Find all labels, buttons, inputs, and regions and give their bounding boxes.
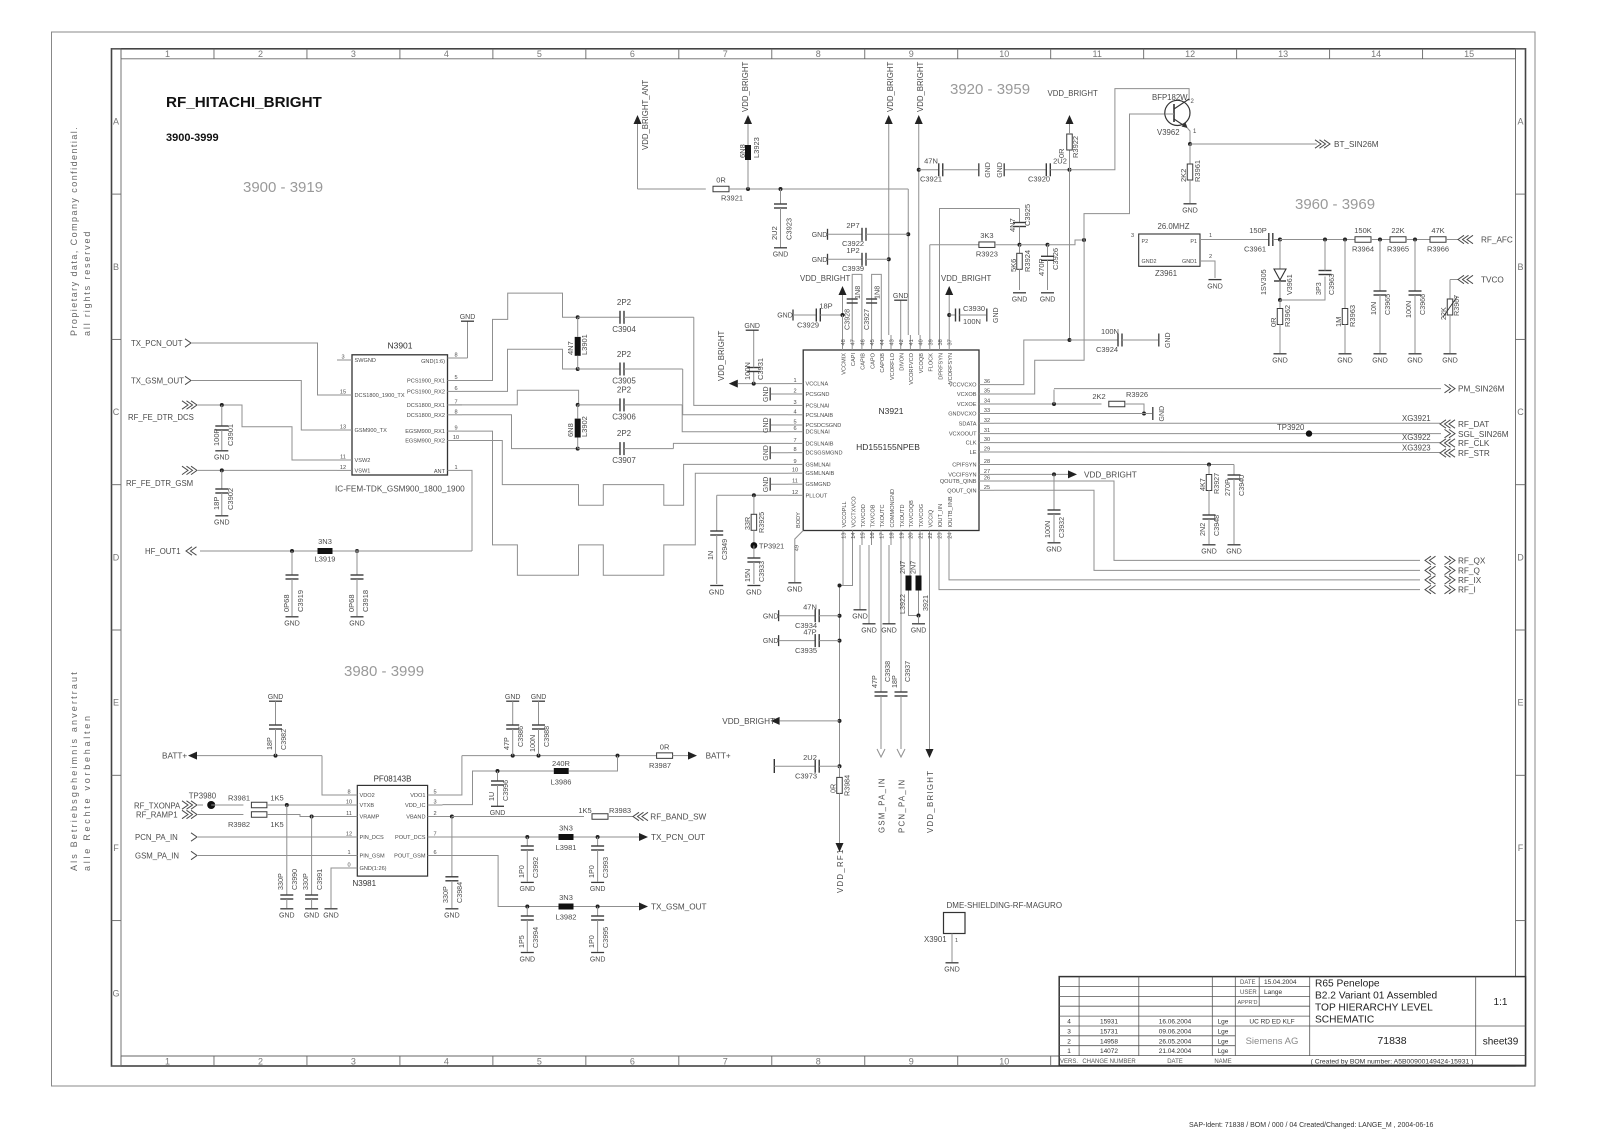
svg-text:GND: GND [323, 913, 339, 920]
svg-text:GND: GND [1372, 358, 1388, 365]
svg-text:45: 45 [870, 339, 876, 345]
svg-text:GND: GND [777, 313, 793, 320]
svg-text:CLK: CLK [966, 441, 977, 447]
svg-text:2: 2 [258, 1056, 263, 1066]
svg-text:15.04.2004: 15.04.2004 [1264, 979, 1297, 986]
svg-text:GND: GND [1272, 358, 1288, 365]
inductor L3982 3N3 [556, 893, 577, 922]
capacitor C3926 470P [1020, 243, 1061, 304]
wire pin28 CPIFSYN [994, 463, 1234, 467]
net TX_PCN_OUT out [639, 833, 705, 842]
svg-text:C3931: C3931 [756, 358, 765, 380]
svg-text:VDD_RF1: VDD_RF1 [836, 848, 845, 893]
svg-text:GND: GND [349, 621, 365, 628]
svg-text:VDO2: VDO2 [360, 793, 375, 799]
svg-text:1P0: 1P0 [587, 865, 596, 878]
svg-text:R3922: R3922 [1071, 136, 1080, 158]
svg-text:USER: USER [1240, 990, 1257, 996]
svg-text:C3904: C3904 [612, 325, 636, 334]
svg-text:150P: 150P [1249, 226, 1267, 235]
svg-text:Z3961: Z3961 [1155, 269, 1177, 278]
sheet title RF_HITACHI_BRIGHT [166, 94, 323, 111]
capacitor C3919 0P68 [282, 551, 305, 628]
svg-text:470P: 470P [1037, 258, 1046, 276]
svg-text:C3991: C3991 [315, 869, 324, 890]
svg-text:0R: 0R [1057, 148, 1066, 158]
resistor R3965 22K [1387, 226, 1430, 254]
svg-text:1P0: 1P0 [517, 865, 526, 878]
svg-text:15: 15 [861, 533, 867, 539]
net RF_STR [994, 444, 1490, 459]
svg-text:4: 4 [1067, 1019, 1071, 1026]
svg-text:sheet39: sheet39 [1483, 1037, 1519, 1048]
svg-text:VDD_BRIGHT_ANT: VDD_BRIGHT_ANT [641, 80, 650, 150]
capacitor C3907 2P2 [576, 429, 674, 465]
svg-text:GND: GND [997, 162, 1004, 178]
svg-text:C3986: C3986 [516, 726, 525, 747]
svg-text:3: 3 [1131, 233, 1134, 239]
capacitor C3949 1N [706, 495, 729, 596]
svg-text:RF_QX: RF_QX [1458, 556, 1486, 565]
resistor R3982 1K5 [228, 812, 342, 829]
capacitor C3961 150P [1244, 226, 1282, 254]
net RF_I [1425, 585, 1476, 594]
svg-text:C3905: C3905 [612, 377, 636, 386]
wire QOUT_QIN to RF_Q [994, 490, 1420, 570]
title block table [1059, 977, 1525, 1066]
svg-text:41: 41 [909, 339, 915, 345]
svg-text:DCSLNAIB: DCSLNAIB [806, 441, 834, 447]
svg-text:A: A [113, 116, 119, 126]
svg-text:3N3: 3N3 [559, 824, 573, 833]
svg-text:10: 10 [999, 49, 1009, 59]
svg-text:R3962: R3962 [1283, 305, 1292, 327]
svg-text:3N3: 3N3 [318, 537, 332, 546]
svg-text:47P: 47P [803, 628, 816, 637]
svg-text:PCSDCSGND: PCSDCSGND [806, 423, 842, 429]
svg-text:10: 10 [999, 1056, 1009, 1066]
svg-text:PIN_DCS: PIN_DCS [360, 835, 385, 841]
IC N3901 IC-FEM-TDK GSM front-end module [335, 341, 465, 494]
capacitor C3927 1N8 hairpin [862, 274, 882, 335]
svg-text:R3924: R3924 [1023, 250, 1032, 272]
svg-text:47N: 47N [803, 603, 817, 612]
svg-text:3921: 3921 [921, 595, 930, 611]
svg-text:C3930: C3930 [963, 304, 985, 313]
svg-text:0R: 0R [829, 784, 838, 793]
svg-text:1: 1 [955, 938, 958, 944]
svg-text:E: E [113, 698, 119, 708]
svg-text:47P: 47P [502, 737, 511, 750]
svg-text:GND: GND [214, 455, 230, 462]
svg-text:VCCIQ: VCCIQ [928, 509, 934, 527]
capacitor C3938 47P [870, 545, 892, 749]
svg-text:3: 3 [1067, 1028, 1071, 1035]
svg-text:GND: GND [268, 694, 284, 701]
notice alle Rechte vorbehalten [82, 713, 92, 871]
svg-text:47N: 47N [924, 157, 938, 166]
svg-text:GND: GND [520, 956, 536, 963]
svg-text:9: 9 [454, 426, 457, 432]
capacitor C3994 1P5 [517, 907, 540, 964]
svg-text:11: 11 [340, 455, 346, 461]
capacitor C3932 100N [1043, 474, 1066, 553]
svg-text:4K7: 4K7 [1198, 478, 1207, 491]
svg-text:PCN_PA_IN: PCN_PA_IN [135, 833, 178, 842]
wire pin35 VCXOB to crystal node [994, 240, 1084, 394]
svg-text:D: D [1517, 552, 1524, 562]
svg-text:C3920: C3920 [1028, 175, 1050, 184]
svg-text:RF_DAT: RF_DAT [1458, 420, 1489, 429]
capacitor C3988 100N [528, 694, 551, 756]
svg-text:DCS1800_RX2: DCS1800_RX2 [407, 413, 445, 419]
svg-text:DCSLNAI: DCSLNAI [806, 430, 831, 436]
svg-text:2K2: 2K2 [1092, 392, 1105, 401]
resistor R3981 1K5 [228, 794, 342, 808]
svg-text:VCXOE: VCXOE [957, 402, 977, 408]
svg-text:L3986: L3986 [551, 778, 572, 787]
svg-text:Propietary data, Company confi: Propietary data, Company confidential. [69, 126, 79, 336]
svg-text:RF_FE_DTR_DCS: RF_FE_DTR_DCS [128, 413, 194, 422]
net SGL_SIN26M with TP3920 [994, 423, 1509, 439]
svg-text:GND: GND [1201, 549, 1217, 556]
svg-text:TXVCOB: TXVCOB [870, 504, 876, 527]
svg-text:PCN_PA_IN: PCN_PA_IN [898, 779, 907, 833]
svg-text:C3927: C3927 [862, 309, 871, 330]
svg-text:30: 30 [984, 437, 990, 443]
svg-text:GND: GND [746, 589, 762, 596]
net 3K3 line pin39 [929, 245, 931, 335]
svg-text:GND: GND [812, 257, 828, 264]
svg-text:EGSM900_RX1: EGSM900_RX1 [405, 429, 445, 435]
svg-text:C3990: C3990 [290, 869, 299, 890]
svg-text:GND: GND [893, 293, 909, 300]
svg-text:F: F [113, 843, 119, 853]
inductor L3921 2N7 [909, 545, 931, 618]
svg-text:GND: GND [812, 232, 828, 239]
net RF_DAT [994, 414, 1489, 429]
svg-text:C3918: C3918 [361, 590, 370, 612]
capacitor C3937 18P [890, 545, 912, 749]
svg-text:2: 2 [258, 49, 263, 59]
svg-text:6: 6 [793, 426, 796, 432]
svg-text:C3925: C3925 [1023, 204, 1032, 226]
svg-text:C3961: C3961 [1244, 245, 1266, 254]
svg-text:100N: 100N [1404, 301, 1413, 318]
svg-text:R3965: R3965 [1387, 245, 1409, 254]
capacitor C3905 2P2 [576, 350, 683, 386]
svg-text:1K5: 1K5 [578, 806, 591, 815]
svg-text:1: 1 [347, 850, 350, 856]
svg-text:CAPIB: CAPIB [861, 353, 867, 370]
svg-text:12: 12 [340, 465, 346, 471]
capacitor C3940 270P [1223, 465, 1246, 556]
svg-text:VDD_BRIGHT: VDD_BRIGHT [886, 62, 895, 112]
wire crystal GND1 to ground [1200, 261, 1223, 290]
svg-text:8: 8 [454, 409, 457, 415]
svg-text:CAPOB: CAPOB [880, 353, 886, 373]
svg-text:GND: GND [1226, 549, 1242, 556]
svg-text:24: 24 [948, 533, 954, 539]
svg-text:RF_Q: RF_Q [1458, 566, 1480, 575]
svg-text:SDATA: SDATA [959, 421, 977, 427]
svg-text:DME-SHIELDING-RF-MAGURO: DME-SHIELDING-RF-MAGURO [947, 901, 1063, 910]
svg-text:XG3922: XG3922 [1402, 433, 1431, 442]
svg-text:DATE: DATE [1240, 980, 1256, 986]
svg-text:GND: GND [763, 445, 770, 461]
svg-text:VDD_BRIGHT: VDD_BRIGHT [1048, 89, 1098, 98]
svg-text:GSMGND: GSMGND [806, 482, 831, 488]
svg-text:HF_OUT1: HF_OUT1 [145, 547, 181, 556]
svg-text:D: D [113, 552, 120, 562]
svg-text:VCCLNA: VCCLNA [806, 382, 829, 388]
svg-text:3900 - 3919: 3900 - 3919 [243, 179, 323, 196]
wire R3922 node down to C3924 line [1069, 170, 1071, 340]
crystal Z3961 26.0MHZ [1131, 222, 1212, 278]
svg-text:C3929: C3929 [797, 321, 819, 330]
svg-text:L3902: L3902 [580, 416, 589, 437]
svg-text:15N: 15N [743, 569, 752, 582]
wire C3906 to N3921 pin6 [682, 405, 788, 432]
capacitor C3922 2P7 [812, 221, 909, 248]
svg-text:28: 28 [984, 459, 990, 465]
svg-text:100N: 100N [528, 735, 537, 752]
svg-text:6: 6 [630, 49, 635, 59]
svg-text:FLOCK: FLOCK [929, 353, 935, 372]
svg-text:GND: GND [852, 614, 868, 621]
svg-text:27: 27 [984, 469, 990, 475]
svg-text:HD155155NPEB: HD155155NPEB [856, 442, 920, 452]
svg-text:8: 8 [347, 790, 350, 796]
svg-text:1P0: 1P0 [587, 935, 596, 948]
svg-text:PCSLNAI: PCSLNAI [806, 403, 830, 409]
svg-text:35: 35 [984, 389, 990, 395]
svg-text:VCORFLO: VCORFLO [890, 352, 896, 380]
inductor L3923 6N8 [738, 62, 761, 189]
wire C3904 to N3921 pin3 [694, 317, 788, 405]
svg-text:21.04.2004: 21.04.2004 [1159, 1048, 1192, 1055]
svg-text:2N7: 2N7 [909, 561, 918, 574]
notice propietary data [69, 126, 79, 336]
N3921 BODY pin to ground [787, 531, 803, 594]
net RF_FE_DTR_DCS [128, 401, 337, 460]
capacitor C3901 100P [212, 405, 235, 462]
svg-text:15731: 15731 [1100, 1028, 1118, 1035]
svg-text:100N: 100N [1043, 521, 1052, 538]
wire VDD rail to R3921 [638, 188, 706, 190]
section label 3960 - 3969 [1295, 196, 1375, 213]
svg-text:TP3980: TP3980 [189, 792, 217, 801]
ground at pin18 [881, 545, 897, 635]
svg-text:R3983: R3983 [609, 806, 631, 815]
inductor L3902 6N8 [566, 405, 589, 449]
svg-text:DCSGSMGND: DCSGSMGND [806, 451, 843, 457]
svg-text:B: B [113, 262, 119, 272]
svg-text:38: 38 [938, 339, 944, 345]
svg-text:C3935: C3935 [795, 646, 817, 655]
svg-text:150K: 150K [1354, 226, 1372, 235]
section label 3900 - 3919 [243, 179, 323, 196]
net TVCO [1450, 275, 1504, 284]
capacitor C3966 100N [1404, 240, 1427, 365]
svg-text:12: 12 [792, 490, 798, 496]
svg-text:GND2: GND2 [1142, 259, 1157, 265]
svg-text:C3988: C3988 [542, 726, 551, 747]
svg-text:TXOUTC: TXOUTC [880, 505, 886, 528]
notice all rights reserved [82, 230, 92, 336]
svg-text:1: 1 [1209, 233, 1212, 239]
svg-text:1: 1 [793, 378, 796, 384]
resistor R3926 2K2 [994, 390, 1148, 416]
net TX_PCN_OUT [131, 339, 337, 395]
svg-text:R3961: R3961 [1193, 160, 1202, 182]
IC N3981 PF08143B power amplifier [342, 775, 443, 889]
svg-text:9: 9 [909, 1056, 914, 1066]
svg-text:POUT_GSM: POUT_GSM [394, 854, 426, 860]
svg-text:34: 34 [984, 399, 990, 405]
svg-text:10N: 10N [1369, 302, 1378, 315]
svg-text:GND: GND [1165, 332, 1172, 348]
svg-text:E: E [1517, 698, 1523, 708]
svg-text:R65 Penelope: R65 Penelope [1315, 979, 1380, 990]
svg-text:GND: GND [505, 694, 521, 701]
svg-text:19: 19 [900, 533, 906, 539]
svg-text:TP3920: TP3920 [1277, 423, 1305, 432]
svg-text:GSMLNAIB: GSMLNAIB [806, 471, 835, 477]
svg-text:16: 16 [870, 533, 876, 539]
wire net DCS1800_RX1 to DCSLNAI [450, 390, 578, 405]
ground at pin16 [861, 545, 877, 635]
svg-text:GND: GND [763, 613, 779, 620]
capacitor C3991 330P [301, 816, 324, 920]
svg-text:C3993: C3993 [601, 857, 610, 878]
svg-text:GND: GND [531, 694, 547, 701]
wire C3905 to N3921 pin4 [683, 369, 788, 415]
svg-text:13: 13 [340, 425, 346, 431]
svg-text:2: 2 [1209, 254, 1212, 260]
svg-text:C3902: C3902 [226, 488, 235, 510]
svg-text:25: 25 [984, 485, 990, 491]
svg-text:COMMONGND: COMMONGND [890, 489, 896, 528]
svg-text:47P: 47P [870, 675, 879, 688]
svg-text:12: 12 [1185, 49, 1195, 59]
svg-text:4N7: 4N7 [1008, 218, 1017, 232]
svg-text:L3923: L3923 [752, 137, 761, 158]
svg-text:X3901: X3901 [924, 935, 947, 944]
N3981 GND pin to ground [323, 868, 342, 920]
capacitor C3924 100N [1070, 327, 1173, 354]
svg-text:VSW2: VSW2 [355, 458, 371, 464]
capacitor C3925 4N7 [1008, 204, 1032, 247]
svg-text:RF_CLK: RF_CLK [1458, 439, 1490, 448]
net GSM_PA_IN down [877, 749, 887, 833]
capacitor C3923 2U2 [770, 189, 794, 259]
wire net PCS1900_RX2 to PCSLNAIB [462, 349, 578, 391]
svg-text:C3996: C3996 [501, 780, 510, 801]
svg-text:GND: GND [279, 913, 295, 920]
svg-text:R3987: R3987 [649, 761, 671, 770]
svg-text:GND: GND [1046, 547, 1062, 554]
net RF_IX [1425, 576, 1482, 585]
svg-text:2P2: 2P2 [617, 298, 632, 307]
resistor R3966 47K [1427, 226, 1458, 254]
net GSM_PA_IN input [135, 851, 342, 860]
svg-text:PCS1900_RX2: PCS1900_RX2 [407, 389, 445, 395]
net VDD_BRIGHT at pin27 [994, 470, 1137, 479]
svg-text:QOUTB_QINB: QOUTB_QINB [940, 479, 977, 485]
svg-text:GND: GND [881, 628, 897, 635]
svg-text:GND: GND [763, 417, 770, 433]
svg-text:R3925: R3925 [757, 512, 766, 533]
svg-text:2: 2 [793, 389, 796, 395]
svg-text:TX_PCN_OUT: TX_PCN_OUT [131, 339, 183, 348]
svg-text:1: 1 [454, 465, 457, 471]
resistor R3925 33R [743, 495, 766, 545]
svg-text:GND: GND [1012, 297, 1028, 304]
capacitor C3990 330P [276, 805, 299, 920]
capacitor C3931 100N [743, 323, 765, 384]
svg-text:PCSGND: PCSGND [806, 392, 830, 398]
svg-text:11: 11 [346, 811, 352, 817]
net BATT+ right [688, 752, 731, 761]
svg-text:VDD_BRIGHT: VDD_BRIGHT [722, 717, 775, 726]
svg-text:TVCO: TVCO [1481, 276, 1504, 285]
svg-text:3: 3 [351, 1056, 356, 1066]
svg-text:18P: 18P [212, 497, 221, 510]
capacitor C3992 1P0 [517, 837, 540, 893]
wire net EGSM900_RX2 staircase to GSMLNAI [455, 441, 788, 506]
svg-text:14958: 14958 [1100, 1038, 1118, 1045]
svg-text:VRAMP: VRAMP [360, 815, 380, 821]
resistor R3927 4K7 [1198, 465, 1221, 516]
svg-text:43: 43 [890, 339, 896, 345]
svg-text:2: 2 [1067, 1038, 1071, 1045]
svg-text:GND: GND [985, 162, 992, 178]
svg-text:L3901: L3901 [580, 334, 589, 355]
wire PLLOUT node [717, 493, 788, 497]
capacitor C3918 0P68 [347, 551, 370, 628]
svg-text:alle Rechte vorbehalten: alle Rechte vorbehalten [82, 713, 92, 871]
svg-text:VDD_BRIGHT: VDD_BRIGHT [941, 274, 991, 283]
svg-text:33R: 33R [743, 517, 752, 530]
net RF_Q [1425, 566, 1480, 575]
svg-text:1:1: 1:1 [1494, 997, 1508, 1008]
capacitor C3965 10N [1369, 240, 1392, 365]
svg-text:C3939: C3939 [842, 264, 864, 273]
svg-text:RF_FE_DTR_GSM: RF_FE_DTR_GSM [126, 479, 193, 488]
svg-text:DCS1800_RX1: DCS1800_RX1 [407, 403, 445, 409]
capacitor C3928 1N8 hairpin [843, 274, 863, 335]
resistor R3924 5K6 [1009, 245, 1032, 304]
svg-text:6: 6 [454, 386, 457, 392]
svg-text:C: C [1517, 407, 1524, 417]
svg-text:GND: GND [1040, 297, 1056, 304]
capacitor C3921 47N [919, 157, 992, 184]
svg-text:10: 10 [792, 468, 798, 474]
capacitor C3982 18P [265, 694, 288, 756]
svg-text:21: 21 [919, 533, 925, 539]
svg-text:GND: GND [284, 621, 300, 628]
svg-text:GNDVCXO: GNDVCXO [948, 412, 977, 418]
wire C3907 to N3921 pin7 [673, 443, 788, 448]
svg-text:SGL_SIN26M: SGL_SIN26M [1458, 430, 1509, 439]
svg-text:IC-FEM-TDK_GSM900_1800_1900: IC-FEM-TDK_GSM900_1800_1900 [335, 485, 465, 494]
svg-text:DCS1800_1900_TX: DCS1800_1900_TX [355, 393, 405, 399]
svg-text:GND: GND [1159, 406, 1166, 422]
net RF_FE_DTR_GSM [126, 466, 337, 488]
ground at pin42 [893, 293, 909, 335]
section label 3920 - 3959 [950, 81, 1030, 98]
